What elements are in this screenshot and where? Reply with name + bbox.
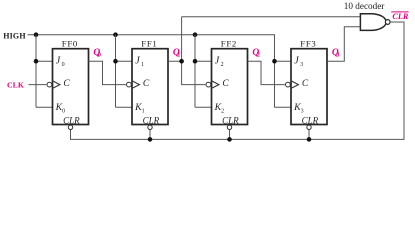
pin CLR FF3 bubble [307,125,311,129]
svg-text:0: 0 [98,51,101,58]
junction Q1 [179,59,184,64]
wire Q0 to FF1 clock [89,61,126,84]
wire FF1 CLR to bus [149,130,151,140]
svg-text:FF1: FF1 [141,38,157,48]
svg-text:2: 2 [257,51,260,58]
junction FF1 J input [113,59,118,64]
flip-flop FF3 box [291,49,327,125]
wire FF3 J/K drop from HIGH [275,35,292,108]
svg-text:2: 2 [221,62,224,68]
svg-text:3: 3 [300,62,303,68]
flip-flop FF1 box [132,49,168,125]
wire Q1 top rail to nand input [182,16,361,18]
svg-text:J: J [215,55,220,66]
junction CLR bus FF2 [227,137,232,142]
pin CLR FF0 bubble [68,125,72,129]
junction HIGH rail FF2 [193,32,198,37]
junction FF2 J input [193,59,198,64]
nand gate output bubble [385,20,390,25]
wire CLK input [29,84,47,86]
wire CLR feedback to bus [71,22,405,139]
svg-text:J: J [294,55,299,66]
pin C FF2 edge triangle [212,81,219,89]
svg-text:J: J [56,55,61,66]
svg-text:FF3: FF3 [300,38,316,48]
flip-flop FF0 box [53,49,89,125]
svg-text:CLR: CLR [222,115,239,125]
pin C FF1 edge triangle [132,81,139,89]
svg-text:HIGH: HIGH [3,32,26,41]
wire FF3 CLR to bus [308,130,310,140]
pin C FF3 edge triangle [291,81,298,89]
svg-text:FF0: FF0 [62,38,78,48]
svg-text:C: C [63,79,70,89]
wire Q3 to nand lower input [327,27,360,62]
junction FF3 J input [272,59,277,64]
pin CLR FF2 bubble [227,125,231,129]
svg-text:CLR: CLR [63,115,80,125]
svg-text:1: 1 [142,108,145,114]
svg-text:1: 1 [141,62,144,68]
nand gate 10-decoder [360,14,386,31]
svg-text:FF2: FF2 [221,38,237,48]
wire FF2 J/K drop from HIGH [195,35,212,108]
svg-text:1: 1 [177,51,180,58]
wire FF0 CLR to bus [70,130,72,140]
pin CLR FF1 bubble [148,125,152,129]
flip-flop FF2 box [212,49,248,125]
wire Q1 to FF2 clock and up to decoder rail [168,17,205,85]
svg-text:10 decoder: 10 decoder [344,1,385,11]
svg-text:J: J [135,55,140,66]
svg-text:C: C [143,79,150,89]
wire FF1 J/K drop from HIGH [116,35,133,108]
svg-text:CLR: CLR [392,12,408,21]
svg-text:3: 3 [301,108,304,114]
pin C FF2 bubble [206,82,211,87]
junction HIGH rail FF0 [34,32,39,37]
svg-text:CLR: CLR [302,115,319,125]
junction FF0 J input [34,59,39,64]
wire FF0 J/K drop from HIGH [36,35,53,108]
junction HIGH rail FF1 [113,32,118,37]
svg-text:0: 0 [62,108,65,114]
pin C FF1 bubble [126,82,131,87]
wire FF2 CLR to bus [229,130,231,140]
junction CLR bus FF3 [307,137,312,142]
svg-text:0: 0 [62,62,65,68]
svg-text:2: 2 [221,108,224,114]
svg-text:CLK: CLK [7,81,24,90]
pin C FF0 bubble [47,82,52,87]
wire Q2 to FF3 clock [248,61,285,84]
svg-text:CLR: CLR [143,115,160,125]
svg-text:3: 3 [336,51,339,58]
svg-text:C: C [302,79,309,89]
svg-text:C: C [222,79,229,89]
junction CLR bus FF1 [148,137,153,142]
pin C FF0 edge triangle [53,81,60,89]
pin C FF3 bubble [286,82,291,87]
wire HIGH rail [28,35,275,108]
